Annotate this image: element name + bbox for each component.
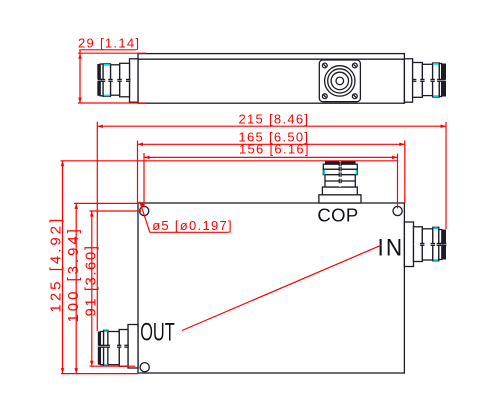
svg-text:125 [4.92]: 125 [4.92] (47, 216, 64, 313)
svg-text:OUT: OUT (140, 319, 175, 346)
svg-text:100 [3.94]: 100 [3.94] (65, 226, 82, 322)
svg-text:COP: COP (317, 204, 358, 225)
svg-text:29 [1.14]: 29 [1.14] (78, 35, 140, 50)
svg-text:ø5 [ø0.197]: ø5 [ø0.197] (152, 218, 233, 233)
svg-text:IN: IN (378, 234, 405, 261)
svg-text:91 [3.60]: 91 [3.60] (83, 245, 100, 317)
svg-text:215 [8.46]: 215 [8.46] (239, 111, 310, 126)
